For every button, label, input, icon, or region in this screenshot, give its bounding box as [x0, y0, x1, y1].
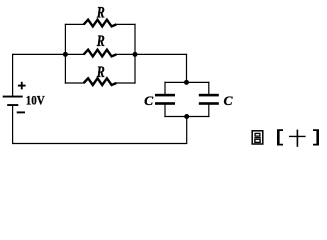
- svg-text:C: C: [224, 93, 233, 108]
- svg-text:R: R: [96, 4, 105, 21]
- svg-text:R: R: [96, 33, 105, 50]
- svg-text:C: C: [144, 93, 153, 108]
- svg-text:R: R: [96, 64, 105, 81]
- svg-text:10V: 10V: [26, 93, 46, 108]
